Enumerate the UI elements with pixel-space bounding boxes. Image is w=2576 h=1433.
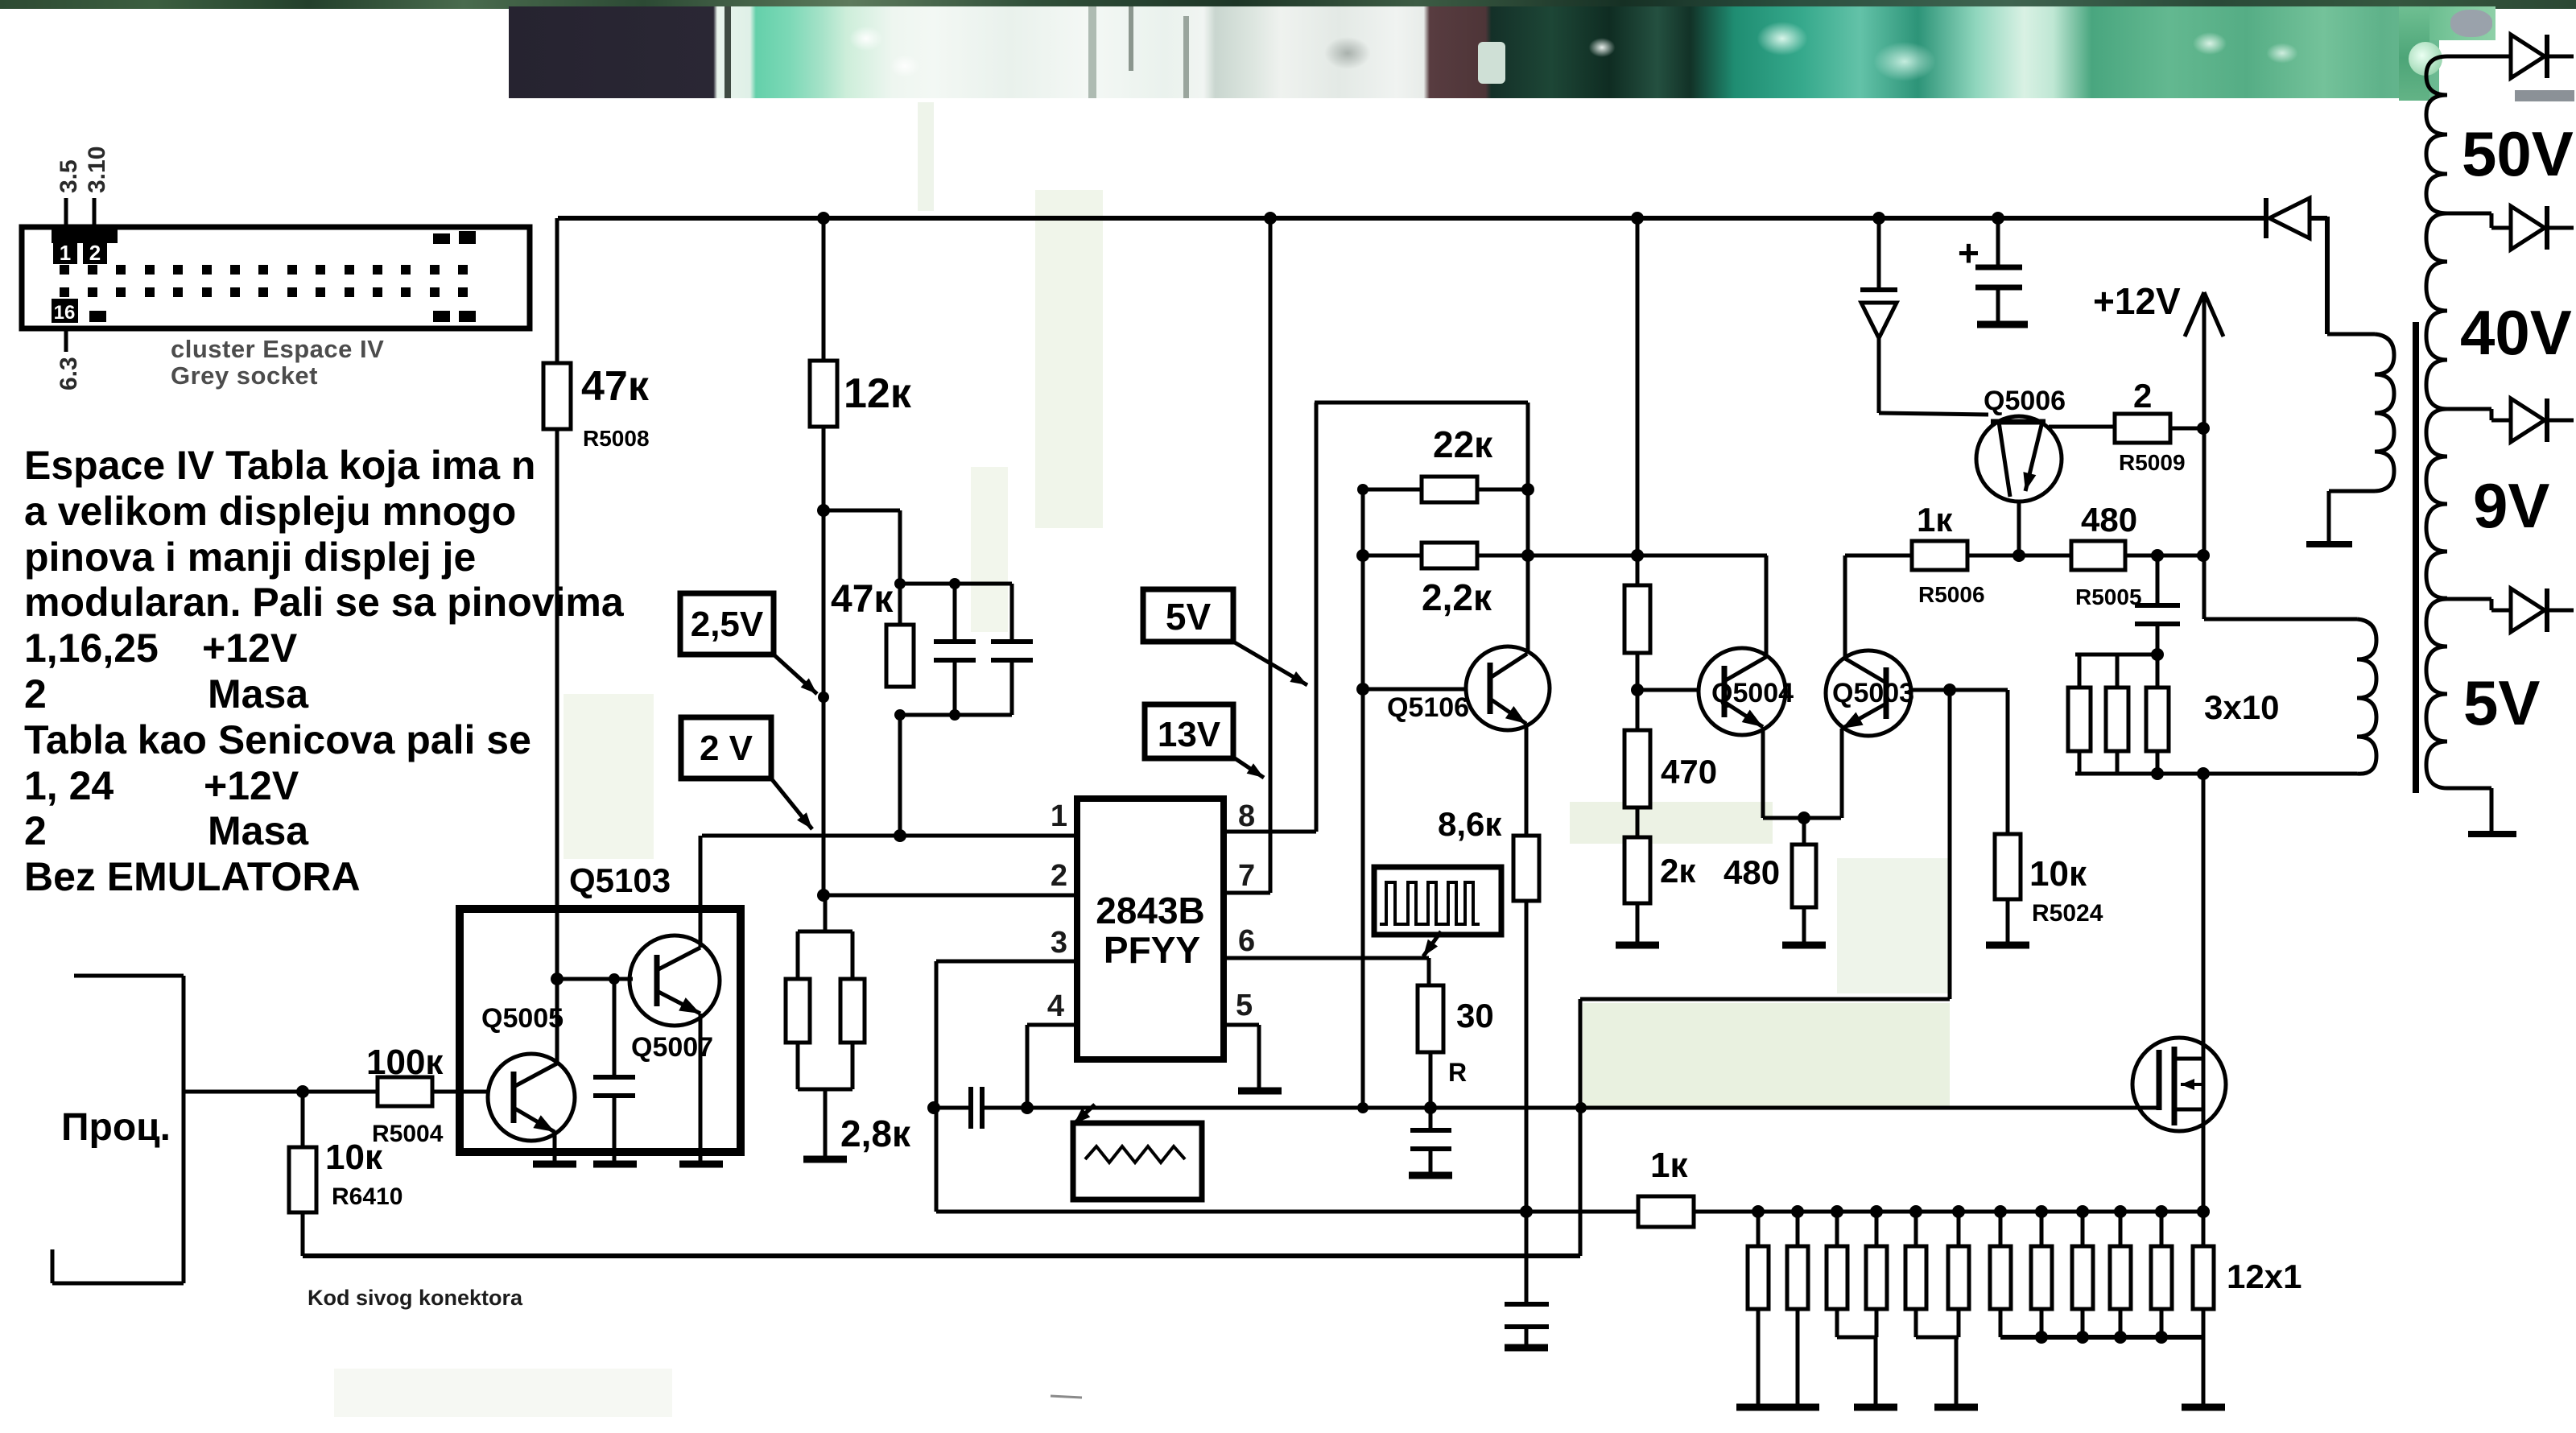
ground winding upper bbox=[2306, 541, 2352, 547]
connector pin 2 bbox=[83, 241, 107, 264]
resistor 1k bottom bbox=[1638, 1196, 1694, 1227]
transistor Q5003 bbox=[1884, 667, 1889, 719]
svg-text:12к: 12к bbox=[844, 370, 912, 417]
node drain tap bbox=[2197, 767, 2210, 780]
wire secondary bottom return bbox=[2447, 787, 2491, 791]
wire loop to Q5003 base bbox=[1948, 690, 1952, 999]
wire 47k branch vertical top bbox=[898, 510, 902, 625]
wire Q5003 base to right bbox=[1911, 688, 2008, 692]
wire pin 6 line bbox=[1224, 956, 1429, 960]
capacitor inside Q5103 box bbox=[613, 979, 617, 1077]
svg-text:Q5005: Q5005 bbox=[481, 1003, 563, 1034]
svg-text:16: 16 bbox=[54, 302, 76, 324]
svg-text:Проц.: Проц. bbox=[61, 1106, 171, 1149]
wire pin 8 line bbox=[1224, 830, 1316, 834]
connector pin 1 bbox=[53, 241, 77, 264]
connector pin 16 bbox=[52, 299, 78, 323]
arrow +12V up bbox=[2202, 295, 2207, 619]
connector cluster Espace IV outline bbox=[22, 227, 530, 328]
wire left vertical from bus bbox=[555, 218, 559, 363]
node 47k bottom bbox=[894, 709, 906, 721]
wire chain mid 2 bbox=[1636, 807, 1640, 837]
ground pin 5 bbox=[1238, 1088, 1282, 1095]
svg-text:480: 480 bbox=[2081, 501, 2137, 539]
wire 1k to emitter node bbox=[1967, 554, 2071, 558]
node 2.2k bracket bbox=[1356, 549, 1369, 562]
capacitor C-b bbox=[1010, 584, 1014, 642]
capacitor below 8.6k bbox=[1525, 1212, 1529, 1304]
resistor 8.6k bbox=[1513, 836, 1539, 901]
node base rail junction bbox=[551, 973, 563, 985]
svg-text:30: 30 bbox=[1456, 997, 1494, 1034]
node cap1 top bbox=[949, 578, 960, 589]
PCB photo thin top band bbox=[0, 0, 2576, 9]
resistor R5008 47k bbox=[543, 363, 571, 429]
svg-text:Q5103: Q5103 bbox=[569, 861, 671, 899]
resistor R6410 10k bbox=[301, 1092, 305, 1147]
wire pin6 to 30 resistor bbox=[1427, 958, 1431, 985]
connector lead 6.3 bbox=[64, 328, 68, 352]
node 30-gate line bbox=[1424, 1101, 1437, 1114]
svg-text:4: 4 bbox=[1047, 989, 1064, 1023]
wire pin 1 line bbox=[702, 834, 1077, 838]
svg-text:1к: 1к bbox=[1650, 1146, 1688, 1185]
svg-text:R5005: R5005 bbox=[2075, 584, 2142, 609]
IC 2843B PFYY body bbox=[1077, 799, 1224, 1059]
svg-text:10к: 10к bbox=[325, 1138, 383, 1177]
ground electrolytic bbox=[1977, 321, 2028, 328]
wire bottom bus bbox=[303, 1253, 1580, 1258]
stray mark bbox=[1051, 1396, 1082, 1398]
transistor Q5004 bbox=[1722, 666, 1728, 717]
svg-text:R: R bbox=[1448, 1058, 1467, 1087]
wire 1k line to MOSFET source bbox=[1694, 1210, 2203, 1214]
svg-text:7: 7 bbox=[1238, 859, 1255, 893]
potentiometer zigzag bbox=[1085, 1146, 1185, 1163]
resistor 2.2k bbox=[1363, 554, 1422, 558]
svg-text:8: 8 bbox=[1238, 799, 1255, 833]
wire pin 2 line bbox=[824, 894, 1077, 898]
node R6410 tap bbox=[296, 1085, 309, 1098]
svg-text:2 V: 2 V bbox=[700, 729, 753, 768]
ground 2.8k bbox=[803, 1156, 847, 1163]
wire Q5007 base rail bbox=[557, 977, 633, 981]
node MOSFET source bbox=[2197, 1205, 2210, 1218]
node bracket gate end bbox=[1357, 1102, 1368, 1113]
node cap-3x10 bbox=[2151, 648, 2164, 661]
svg-text:1: 1 bbox=[1051, 799, 1067, 833]
wire Q5006 collector to R5009 bbox=[2049, 425, 2115, 429]
resistor 2k bbox=[1624, 837, 1650, 903]
svg-text:5V: 5V bbox=[2463, 667, 2540, 738]
wire bank r1 ground bbox=[1757, 1309, 1761, 1404]
winding primary lower bbox=[2357, 619, 2376, 774]
svg-text:3: 3 bbox=[1051, 926, 1067, 960]
diode output 9V tap bbox=[2447, 407, 2491, 411]
svg-text:2,5V: 2,5V bbox=[691, 605, 764, 644]
node Q5004 base tap bbox=[1631, 683, 1644, 696]
ground cap Q5103 bbox=[593, 1161, 637, 1168]
pulse box arrow to pin6 bbox=[1423, 931, 1441, 956]
svg-text:13V: 13V bbox=[1158, 715, 1221, 754]
resistor 3x10 c bbox=[2156, 655, 2160, 688]
wire 47k branch to pin1 line bbox=[898, 715, 902, 836]
svg-text:470: 470 bbox=[1661, 753, 1717, 791]
svg-text:+: + bbox=[1958, 232, 1979, 274]
ground 2k bbox=[1616, 942, 1659, 949]
svg-text:R5006: R5006 bbox=[1918, 582, 1985, 607]
wire bank r2 ground bbox=[1796, 1309, 1800, 1404]
winding secondary segment 2 bbox=[2426, 213, 2447, 409]
svg-text:Q5106: Q5106 bbox=[1387, 692, 1469, 723]
wire stub to 47k branch bbox=[824, 509, 900, 513]
wire Q5106 emitter to 8.6k bbox=[1525, 724, 1529, 836]
wire 3x10 bottom rail bbox=[2075, 772, 2357, 776]
arrow 2.5V to 12k wire bbox=[774, 655, 817, 694]
svg-text:Q5006: Q5006 bbox=[1984, 386, 2066, 416]
wire emitter joining rail bbox=[1763, 816, 1841, 820]
wire pin 4 jog bbox=[1027, 1023, 1077, 1027]
resistor bank 12x1 bbox=[1748, 1205, 2214, 1309]
top-right photo corner bbox=[2399, 6, 2495, 40]
ground Q5007 bbox=[679, 1161, 723, 1168]
connector corner marks bbox=[89, 231, 476, 322]
wire pin 7 line bbox=[1224, 891, 1270, 895]
svg-text:Q5004: Q5004 bbox=[1711, 678, 1794, 708]
background scan tint patches bbox=[334, 102, 1951, 1417]
label Kod sivog konektora bbox=[308, 1286, 522, 1311]
callout 13V box bbox=[1145, 704, 1233, 758]
node 3x10-c bottom bbox=[2151, 767, 2164, 780]
wire 2.8k bottom bracket bbox=[796, 1043, 800, 1089]
wire 30 resistor down bbox=[1429, 1052, 1433, 1130]
label cluster Espace IV / Grey socket bbox=[171, 335, 384, 364]
connector pin dots row 2 bbox=[60, 287, 468, 297]
callout 5V box bbox=[1143, 589, 1233, 642]
node bus-diode branch bbox=[1872, 212, 1885, 225]
wire 8.6k down to 1k line bbox=[1525, 901, 1529, 1212]
wire Q5006 emitter down bbox=[2017, 502, 2021, 555]
svg-text:R5004: R5004 bbox=[372, 1121, 444, 1147]
node pin2-12k bbox=[817, 889, 830, 902]
wire feedback box left vertical bbox=[935, 961, 939, 1212]
svg-text:50V: 50V bbox=[2462, 118, 2574, 189]
wire 2.8k top bracket bbox=[798, 930, 852, 934]
svg-text:12x1: 12x1 bbox=[2227, 1257, 2301, 1295]
box Q5103 module outline bbox=[460, 909, 741, 1152]
node bus-12k bbox=[817, 212, 830, 225]
resistor 3x10 a bbox=[2078, 655, 2082, 688]
node caps bottom bbox=[949, 709, 960, 721]
node 22k right bbox=[1521, 483, 1534, 496]
node 2.2k-collector riser bbox=[1521, 549, 1534, 562]
node bus-pin7 riser bbox=[1264, 212, 1277, 225]
wire Q5005 emitter to ground bbox=[553, 1132, 557, 1161]
resistor 30 R bbox=[1418, 985, 1443, 1052]
svg-text:2: 2 bbox=[1051, 859, 1067, 893]
wire 12V rail to lower winding bbox=[2204, 617, 2357, 622]
winding primary upper bbox=[2327, 332, 2375, 337]
winding secondary segment 4 bbox=[2426, 599, 2447, 788]
node caps top bbox=[894, 578, 906, 589]
svg-text:6: 6 bbox=[1238, 924, 1255, 958]
PCB photo strip bbox=[509, 6, 2439, 98]
capacitor electrolytic on bus bbox=[1996, 218, 2000, 267]
svg-text:+12V: +12V bbox=[2093, 280, 2181, 322]
resistor R5006 1k bbox=[1845, 554, 1912, 558]
node gate line left end bbox=[927, 1101, 940, 1114]
svg-text:3.10: 3.10 bbox=[84, 147, 110, 193]
wire 3x10 top rail bbox=[2075, 653, 2160, 657]
svg-text:480: 480 bbox=[1724, 853, 1780, 891]
wire Q5003 emitter up bbox=[1840, 729, 1844, 818]
wire bank r5r6 ground bbox=[1914, 1309, 1918, 1337]
resistor 12k bbox=[822, 218, 826, 361]
winding secondary segment 1 bbox=[2426, 56, 2447, 213]
svg-text:2,8к: 2,8к bbox=[840, 1113, 911, 1154]
wire diode to Q5006 base bbox=[1877, 338, 1881, 413]
ground capacitor 8.6k bbox=[1505, 1344, 1548, 1352]
wire pin7 riser to bus bbox=[1269, 218, 1273, 893]
wire Q5004 collector from 2.2k bbox=[1765, 555, 1769, 657]
wire 22k rect right vertical bbox=[1526, 403, 1530, 654]
svg-text:1к: 1к bbox=[1917, 501, 1953, 539]
transistor MOSFET switch bbox=[2132, 1038, 2226, 1131]
ground capacitor 30 bbox=[1409, 1172, 1452, 1179]
resistor R5009 2 bbox=[2115, 414, 2170, 443]
svg-text:3x10: 3x10 bbox=[2204, 688, 2279, 726]
potentiometer wiper arrow bbox=[1074, 1105, 1095, 1124]
arrow 2V to pin1 line bbox=[771, 778, 812, 829]
resistor 470 bbox=[1624, 730, 1650, 807]
node cap junction bbox=[609, 973, 620, 985]
wire caps top rail bbox=[900, 582, 1012, 586]
wire Q5007 emitter to ground bbox=[699, 1014, 703, 1161]
svg-text:10к: 10к bbox=[2029, 854, 2087, 894]
wire 12k vertical bbox=[822, 427, 826, 895]
node 8.6k-bottom line bbox=[1520, 1205, 1533, 1218]
resistor 2.8k left bbox=[786, 979, 810, 1043]
connector lead 3.10 bbox=[93, 198, 97, 229]
wire R5008 to Q5005 collector bbox=[555, 429, 559, 1063]
node bracket top bbox=[1357, 484, 1368, 495]
connector lead 3.5 bbox=[64, 198, 68, 229]
resistor 22k bbox=[1363, 488, 1422, 492]
wire Q5004 base bbox=[1637, 688, 1699, 692]
wire Q5007 collector riser bbox=[699, 836, 703, 948]
node 2.2k-470 chain bbox=[1631, 549, 1644, 562]
svg-text:2: 2 bbox=[89, 241, 101, 265]
wire R5009 to 12V rail bbox=[2170, 427, 2203, 431]
node Q5006 emitter bbox=[2013, 549, 2025, 562]
node R5009-rail bbox=[2197, 422, 2210, 435]
wire loop riser bbox=[1579, 999, 1583, 1256]
ground secondary bbox=[2468, 831, 2516, 837]
resistor R5024 10k bbox=[1995, 834, 2021, 899]
wire Q5003 base to 10k bbox=[2006, 690, 2010, 834]
potentiometer box bbox=[1073, 1123, 1202, 1200]
resistor 3x10 b bbox=[2116, 655, 2120, 688]
wire Q5003 collector to 1k bbox=[1843, 555, 1847, 659]
node 480-12V rail bbox=[2197, 549, 2210, 562]
wire gate line with series capacitor bbox=[934, 1106, 971, 1110]
wire Q5005 base from R5004 bbox=[432, 1090, 488, 1094]
svg-text:5V: 5V bbox=[1166, 596, 1212, 638]
svg-text:R5024: R5024 bbox=[2032, 900, 2103, 927]
wire drain vertical bbox=[2202, 774, 2206, 1212]
ground 480 lower bbox=[1782, 942, 1826, 949]
wire pin 5 jog bbox=[1224, 1023, 1259, 1027]
capacitor series in gate line bbox=[968, 1087, 973, 1129]
svg-text:40V: 40V bbox=[2460, 297, 2572, 368]
svg-text:R5008: R5008 bbox=[583, 426, 650, 451]
wire caps bottom rail bbox=[900, 713, 1012, 717]
node pin4-gate line bbox=[1021, 1101, 1034, 1114]
svg-text:22к: 22к bbox=[1433, 423, 1493, 465]
svg-text:6.3: 6.3 bbox=[56, 357, 82, 390]
resistor 47k second bbox=[886, 625, 914, 687]
wire Q5004 emitter down bbox=[1761, 727, 1765, 818]
wire pin8 riser to 22k rect bbox=[1315, 403, 1319, 832]
wire Q5106 base bbox=[1363, 688, 1468, 692]
svg-text:R5009: R5009 bbox=[2119, 450, 2186, 475]
node 2.5V pointer target bbox=[818, 692, 829, 703]
wire processor output bbox=[184, 1090, 378, 1094]
box processor bbox=[74, 974, 184, 978]
connector pin dots row 1 bbox=[60, 265, 468, 275]
node loop-gate cross bbox=[1575, 1102, 1587, 1113]
wire top bus right of diode bbox=[2310, 216, 2327, 221]
svg-text:100к: 100к bbox=[366, 1043, 444, 1082]
svg-text:47к: 47к bbox=[831, 578, 894, 621]
ground Q5005 bbox=[533, 1161, 576, 1168]
node 480 tap bbox=[1798, 811, 1810, 824]
pulse waveform box bbox=[1374, 867, 1501, 935]
capacitor below 30 bbox=[1410, 1128, 1451, 1133]
svg-text:PFYY: PFYY bbox=[1104, 929, 1200, 971]
wire top +supply bus bbox=[558, 216, 2266, 221]
svg-text:2843B: 2843B bbox=[1096, 890, 1205, 931]
diode bus branch bbox=[1877, 218, 1881, 288]
diode output 50V top bbox=[2447, 55, 2511, 59]
resistor 2.8k right bbox=[840, 979, 865, 1043]
diode output 40V tap bbox=[2447, 212, 2491, 216]
svg-text:9V: 9V bbox=[2473, 470, 2549, 541]
node 12k-47k stub bbox=[817, 504, 830, 517]
wire chain mid 1 bbox=[1636, 653, 1640, 730]
arrow 5V to pin8 riser bbox=[1233, 642, 1307, 685]
diode output 5V tap bbox=[2447, 597, 2491, 601]
svg-text:3.5: 3.5 bbox=[56, 159, 82, 193]
node bus-capacitor bbox=[1992, 212, 2004, 225]
wire 22k rect top bbox=[1315, 401, 1528, 405]
resistor chain top unlabeled bbox=[1624, 585, 1650, 653]
node 480-cap bbox=[2151, 549, 2164, 562]
node 47k-pin1 bbox=[894, 829, 906, 842]
wire 22k-2.2k left bracket bbox=[1361, 489, 1365, 1108]
wire gate line to MOSFET bbox=[982, 1106, 2159, 1110]
node base-loop riser bbox=[1943, 683, 1956, 696]
svg-text:8,6к: 8,6к bbox=[1438, 805, 1502, 843]
svg-text:Q5003: Q5003 bbox=[1832, 678, 1914, 708]
callout 2.5V box bbox=[680, 593, 774, 655]
capacitor C-a bbox=[953, 584, 957, 642]
transformer core bar bbox=[2413, 322, 2419, 793]
note text block bbox=[24, 442, 535, 489]
wire R6410 to bottom bus bbox=[301, 1212, 305, 1256]
node bus-470 chain bbox=[1631, 212, 1644, 225]
svg-text:1: 1 bbox=[60, 241, 71, 265]
node Q5106 base bbox=[1356, 683, 1369, 696]
arrow 13V to pin7 riser bbox=[1235, 758, 1264, 778]
svg-text:2к: 2к bbox=[1660, 852, 1696, 890]
connector header bar bbox=[52, 229, 118, 243]
resistor 480 lower bbox=[1802, 818, 1806, 845]
wire bank r3r4 ground bbox=[1835, 1309, 1839, 1337]
svg-text:47к: 47к bbox=[581, 363, 650, 410]
svg-text:2: 2 bbox=[2133, 377, 2152, 415]
ground 10k bbox=[1986, 942, 2029, 949]
resistor R5005 480 bbox=[2071, 541, 2125, 570]
pulse waveform trace bbox=[1380, 882, 1480, 924]
callout 2V box bbox=[681, 717, 771, 778]
svg-text:2,2к: 2,2к bbox=[1422, 576, 1492, 618]
svg-text:R6410: R6410 bbox=[332, 1183, 402, 1210]
wire 470 chain from bus bbox=[1636, 218, 1640, 585]
svg-text:5: 5 bbox=[1236, 989, 1253, 1022]
wire pin 3 line bbox=[936, 960, 1077, 964]
winding secondary segment 3 bbox=[2426, 409, 2447, 598]
wire loop horizontal bbox=[1580, 997, 1950, 1001]
wire 480 to +12V rail bbox=[2125, 554, 2203, 558]
diode bus right bbox=[2264, 198, 2268, 238]
wire bank r7-r12 ground rail bbox=[1999, 1309, 2003, 1337]
wire 2k to ground bbox=[1636, 903, 1640, 944]
capacitor above 3x10 bbox=[2156, 555, 2160, 605]
photo segment details bbox=[724, 6, 731, 98]
wire pin2 riser to 2.8k bbox=[824, 895, 828, 931]
wire bottom 1k line bbox=[936, 1210, 1638, 1214]
resistor R5004 100k bbox=[378, 1077, 432, 1106]
